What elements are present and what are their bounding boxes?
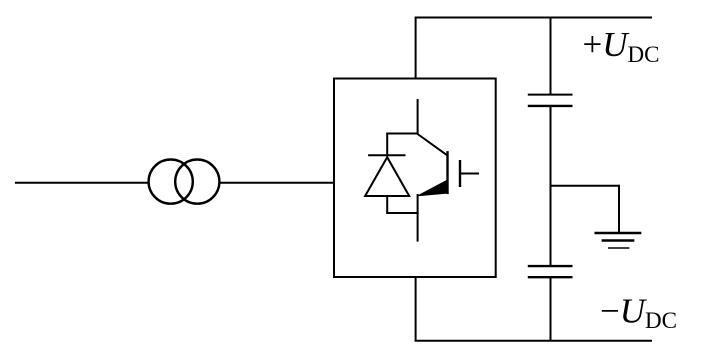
svg-text:+UDC: +UDC — [583, 25, 660, 67]
svg-text:−UDC: −UDC — [600, 291, 677, 333]
